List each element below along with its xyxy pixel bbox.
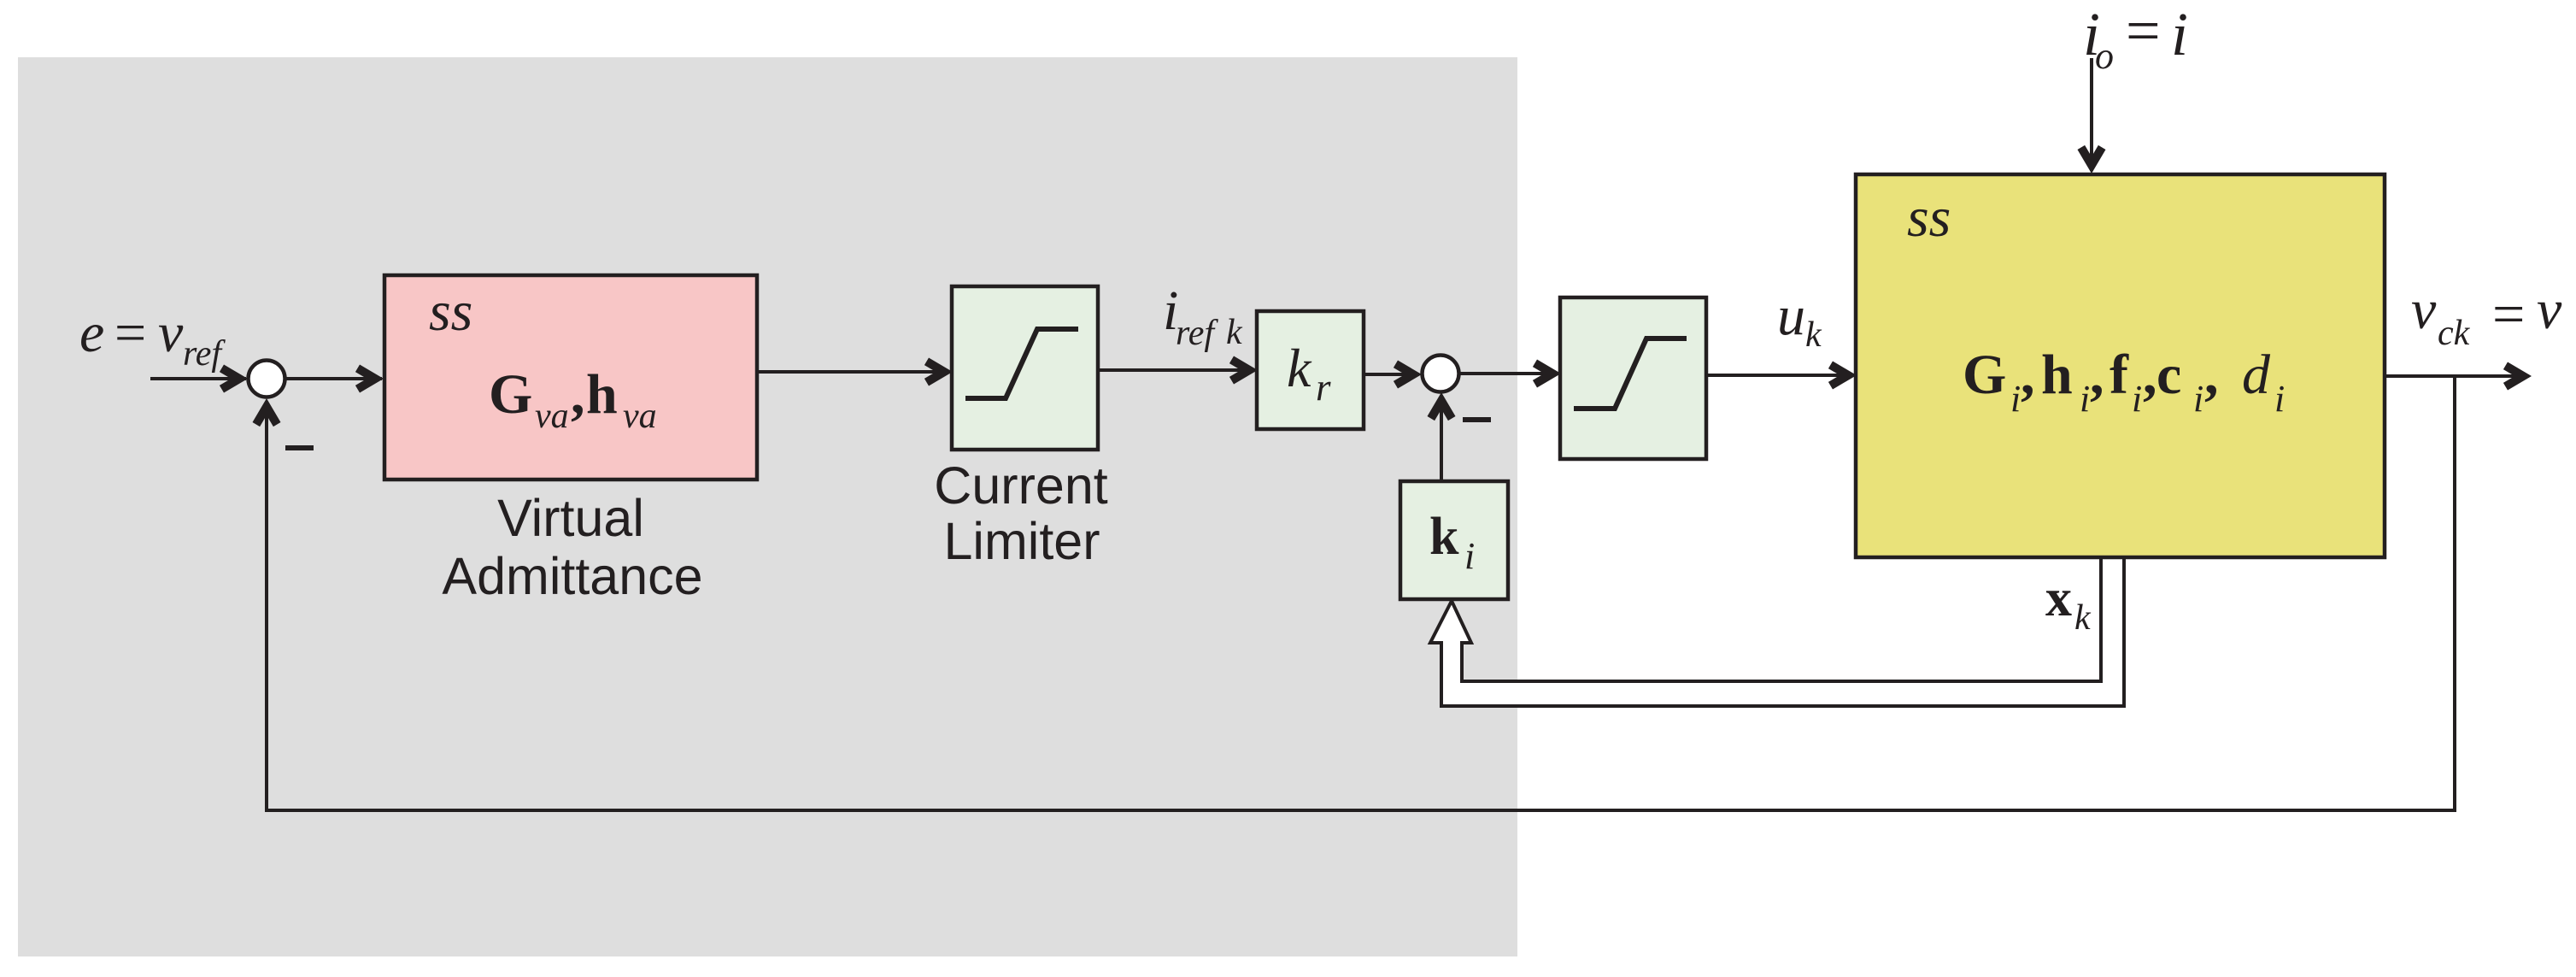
svg-text:v: v — [2537, 279, 2562, 341]
arrowhead into virtual admittance — [355, 365, 384, 393]
block current limiter — [952, 286, 1098, 450]
summing junction 1 — [249, 361, 285, 397]
svg-text:ref: ref — [183, 334, 226, 374]
minus sign at summing junction 1 — [285, 445, 314, 450]
hollow vector path x_k from plant bottom to k_i — [1430, 551, 2124, 706]
svg-text:G: G — [489, 363, 532, 426]
arrowhead up into summing junction 1 — [253, 398, 281, 427]
summing junction 2 — [1423, 356, 1459, 392]
saturation symbol in current limiter — [965, 329, 1078, 398]
svg-text:i: i — [2193, 378, 2203, 420]
wire virtual admittance to current limiter — [757, 370, 949, 374]
gray controller region — [18, 57, 1517, 956]
output arrowhead — [2503, 362, 2532, 391]
wire saturation 2 to plant — [1706, 374, 1853, 377]
svg-text:i: i — [2171, 0, 2188, 68]
svg-text:k: k — [1226, 313, 1243, 352]
svg-text:e: e — [79, 302, 104, 364]
block gain k_r — [1257, 311, 1364, 429]
svg-text:=: = — [2492, 281, 2525, 346]
svg-text:k: k — [1429, 508, 1459, 566]
svg-text:f: f — [2110, 344, 2129, 406]
svg-text:h: h — [586, 363, 618, 426]
minus sign at summing junction 2 — [1463, 417, 1491, 422]
arrowhead into summing junction 2 — [1394, 361, 1422, 389]
svg-text:k: k — [1287, 338, 1312, 398]
block virtual admittance G_va h_va — [384, 275, 757, 480]
svg-text:va: va — [623, 397, 657, 436]
arrowhead up into summing junction 2 — [1428, 392, 1456, 421]
svg-text:ss: ss — [429, 280, 472, 343]
svg-text:r: r — [1316, 366, 1331, 409]
svg-text:,: , — [2143, 344, 2157, 406]
svg-text:,: , — [2021, 344, 2035, 406]
svg-text:=: = — [2126, 0, 2161, 65]
svg-text:x: x — [2045, 569, 2072, 627]
svg-text:,: , — [2204, 344, 2219, 406]
arrowhead into saturation 2 — [1533, 360, 1561, 388]
wire summing junction 1 to virtual admittance — [285, 377, 382, 380]
svg-text:G: G — [1963, 344, 2006, 406]
svg-text:i: i — [2080, 378, 2090, 420]
block saturation 2 — [1560, 297, 1706, 459]
wire plant output v_ck — [2385, 374, 2529, 378]
arrowhead into k_r — [1229, 356, 1258, 385]
svg-text:ck: ck — [2438, 314, 2471, 353]
svg-text:va: va — [535, 397, 569, 436]
svg-text:ref: ref — [1176, 314, 1218, 353]
block plant ss G_i h_i f_i c_i d_i — [1856, 174, 2385, 557]
wire summing junction 2 to saturation 2 — [1459, 372, 1558, 375]
wire k_r to summing junction 2 — [1364, 373, 1419, 376]
svg-text:v: v — [2411, 279, 2437, 341]
block gain k_i — [1400, 481, 1508, 599]
svg-text:k: k — [1805, 315, 1822, 355]
svg-text:o: o — [2095, 35, 2114, 77]
svg-text:,: , — [2090, 344, 2104, 406]
arrowhead into current limiter — [924, 358, 953, 386]
svg-text:i: i — [1464, 535, 1475, 577]
svg-text:Limiter: Limiter — [943, 512, 1100, 570]
svg-text:i: i — [2010, 378, 2021, 420]
svg-text:k: k — [2074, 598, 2092, 638]
svg-text:ss: ss — [1907, 186, 1951, 249]
svg-text:Virtual: Virtual — [497, 489, 644, 547]
arrowhead into plant — [1828, 362, 1857, 390]
svg-text:h: h — [2041, 344, 2073, 406]
svg-text:=: = — [114, 302, 146, 364]
svg-text:,: , — [571, 363, 585, 426]
wire e to summing junction — [150, 377, 246, 380]
arrowhead into summing junction 1 — [220, 365, 248, 393]
feedback wire from output junction to summing junction 1 — [267, 376, 2455, 810]
svg-text:d: d — [2242, 344, 2271, 406]
svg-text:Admittance: Admittance — [442, 547, 702, 605]
svg-text:i: i — [2132, 378, 2142, 420]
svg-text:c: c — [2156, 344, 2181, 406]
wire current limiter to k_r — [1098, 368, 1254, 372]
wire k_i to summing junction 2 — [1440, 396, 1443, 481]
svg-text:i: i — [2274, 378, 2285, 420]
svg-text:v: v — [158, 302, 184, 364]
svg-text:u: u — [1777, 285, 1805, 347]
saturation symbol in saturation 2 — [1574, 338, 1687, 409]
svg-text:Current: Current — [934, 456, 1107, 515]
arrowhead into plant top — [2078, 145, 2106, 174]
wire i_o into plant top — [2090, 58, 2093, 171]
